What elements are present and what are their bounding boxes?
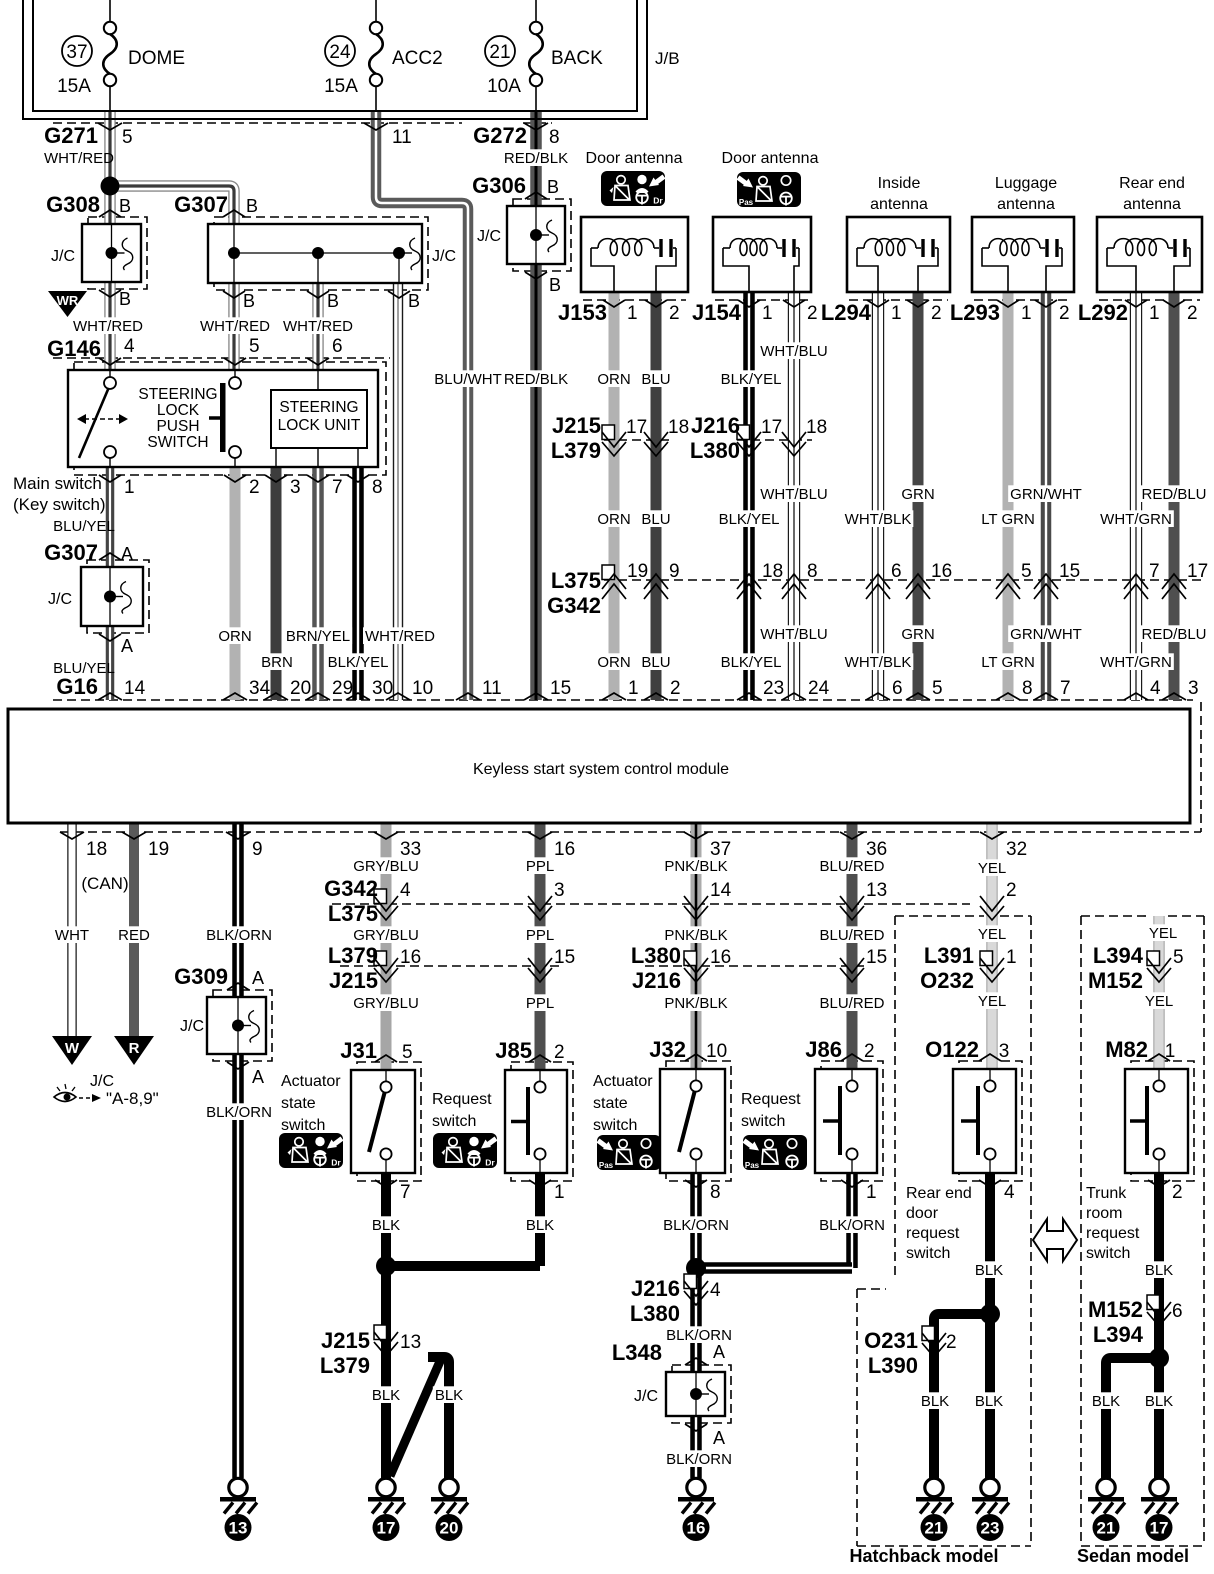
svg-text:18: 18 <box>86 839 107 860</box>
svg-text:29: 29 <box>332 678 353 699</box>
svg-text:antenna: antenna <box>997 196 1055 213</box>
svg-text:11: 11 <box>392 127 412 148</box>
svg-text:BLK: BLK <box>975 1262 1003 1279</box>
svg-text:8: 8 <box>807 561 818 582</box>
svg-text:antenna: antenna <box>1123 196 1181 213</box>
svg-text:A: A <box>121 636 133 656</box>
svg-text:J216: J216 <box>632 968 681 993</box>
svg-text:15: 15 <box>554 947 575 968</box>
svg-text:Luggage: Luggage <box>995 175 1057 192</box>
svg-text:B: B <box>246 196 258 216</box>
svg-text:10: 10 <box>706 1041 727 1062</box>
svg-text:switch: switch <box>741 1113 785 1130</box>
svg-text:Door antenna: Door antenna <box>722 150 819 167</box>
svg-text:GRY/BLU: GRY/BLU <box>353 927 419 944</box>
svg-text:switch: switch <box>1086 1245 1130 1262</box>
svg-text:BLK/ORN: BLK/ORN <box>206 1104 272 1121</box>
svg-text:2: 2 <box>1172 1182 1183 1203</box>
svg-text:2: 2 <box>669 303 680 324</box>
svg-text:BLU/WHT: BLU/WHT <box>434 371 502 388</box>
svg-text:BLK: BLK <box>975 1393 1003 1410</box>
svg-text:L394: L394 <box>1093 1322 1144 1347</box>
svg-text:BLU: BLU <box>641 511 670 528</box>
svg-text:J85: J85 <box>495 1038 532 1063</box>
svg-text:B: B <box>549 275 561 295</box>
svg-text:1: 1 <box>627 303 638 324</box>
svg-text:2: 2 <box>670 678 681 699</box>
svg-text:O122: O122 <box>925 1037 979 1062</box>
svg-text:BLK: BLK <box>526 1217 554 1234</box>
svg-text:2: 2 <box>249 477 260 498</box>
svg-text:M82: M82 <box>1105 1037 1148 1062</box>
svg-text:34: 34 <box>249 678 271 699</box>
svg-text:PNK/BLK: PNK/BLK <box>664 995 727 1012</box>
svg-text:STEERING: STEERING <box>279 399 358 416</box>
svg-text:WHT/BLK: WHT/BLK <box>845 654 912 671</box>
svg-text:7: 7 <box>1149 561 1160 582</box>
svg-text:15: 15 <box>866 947 887 968</box>
svg-text:antenna: antenna <box>870 196 928 213</box>
svg-text:1: 1 <box>124 477 135 498</box>
svg-text:GRY/BLU: GRY/BLU <box>353 858 419 875</box>
svg-text:GRN: GRN <box>901 486 934 503</box>
svg-text:ORN: ORN <box>597 511 630 528</box>
svg-text:L292: L292 <box>1078 300 1128 325</box>
svg-text:2: 2 <box>946 1332 957 1353</box>
svg-text:L379: L379 <box>320 1353 370 1378</box>
svg-text:J86: J86 <box>805 1037 842 1062</box>
svg-text:G307: G307 <box>174 192 228 217</box>
svg-text:1: 1 <box>628 678 639 699</box>
svg-text:ORN: ORN <box>218 628 251 645</box>
svg-text:switch: switch <box>906 1245 950 1262</box>
svg-text:Dr: Dr <box>331 1158 341 1168</box>
svg-text:Hatchback model: Hatchback model <box>849 1546 998 1566</box>
svg-text:GRN: GRN <box>901 626 934 643</box>
svg-text:switch: switch <box>281 1117 325 1134</box>
svg-text:BLK/ORN: BLK/ORN <box>206 927 272 944</box>
svg-text:21: 21 <box>1097 1519 1116 1538</box>
svg-text:WHT/GRN: WHT/GRN <box>1100 511 1172 528</box>
svg-text:WHT/BLU: WHT/BLU <box>760 486 828 503</box>
svg-text:LOCK UNIT: LOCK UNIT <box>278 417 361 434</box>
svg-text:L390: L390 <box>868 1353 918 1378</box>
svg-text:BRN: BRN <box>261 654 293 671</box>
svg-text:L380: L380 <box>631 943 681 968</box>
svg-text:G342: G342 <box>324 876 378 901</box>
svg-text:WHT/RED: WHT/RED <box>73 318 143 335</box>
svg-text:6: 6 <box>892 678 903 699</box>
svg-text:Sedan model: Sedan model <box>1077 1546 1189 1566</box>
svg-text:J31: J31 <box>340 1038 377 1063</box>
svg-text:RED/BLK: RED/BLK <box>504 150 568 167</box>
svg-text:BLK: BLK <box>435 1387 463 1404</box>
svg-text:L348: L348 <box>612 1340 662 1365</box>
svg-text:state: state <box>281 1095 316 1112</box>
svg-text:5: 5 <box>249 336 260 357</box>
svg-text:J215: J215 <box>552 413 601 438</box>
svg-text:G271: G271 <box>44 123 98 148</box>
svg-text:BLK: BLK <box>1145 1393 1173 1410</box>
svg-text:A: A <box>713 1428 725 1448</box>
svg-text:16: 16 <box>400 947 421 968</box>
svg-text:20: 20 <box>440 1519 459 1538</box>
svg-text:"A-8,9": "A-8,9" <box>106 1089 159 1108</box>
svg-text:36: 36 <box>866 839 887 860</box>
svg-text:5: 5 <box>122 127 133 148</box>
svg-text:PPL: PPL <box>526 927 554 944</box>
svg-text:1: 1 <box>1006 947 1017 968</box>
svg-text:door: door <box>906 1205 939 1222</box>
svg-text:G306: G306 <box>472 173 526 198</box>
svg-text:Pas: Pas <box>745 1161 760 1170</box>
svg-text:L391: L391 <box>924 943 974 968</box>
svg-text:PNK/BLK: PNK/BLK <box>664 927 727 944</box>
svg-text:5: 5 <box>1173 947 1184 968</box>
svg-text:B: B <box>243 291 255 311</box>
svg-text:2: 2 <box>1006 880 1017 901</box>
svg-text:30: 30 <box>372 678 393 699</box>
svg-text:J/C: J/C <box>48 591 72 608</box>
svg-text:ORN: ORN <box>597 654 630 671</box>
svg-text:23: 23 <box>981 1519 1000 1538</box>
svg-text:4: 4 <box>124 336 135 357</box>
svg-text:PNK/BLK: PNK/BLK <box>664 858 727 875</box>
svg-text:BRN/YEL: BRN/YEL <box>286 628 350 645</box>
svg-text:G272: G272 <box>473 123 527 148</box>
svg-text:L379: L379 <box>328 943 378 968</box>
svg-text:request: request <box>906 1225 960 1242</box>
svg-text:L293: L293 <box>950 300 1000 325</box>
svg-text:15: 15 <box>550 678 571 699</box>
svg-text:M152: M152 <box>1088 968 1143 993</box>
svg-text:2: 2 <box>554 1042 565 1063</box>
svg-text:23: 23 <box>763 678 784 699</box>
svg-text:(Key switch): (Key switch) <box>13 495 106 514</box>
svg-text:B: B <box>119 196 131 216</box>
svg-text:33: 33 <box>400 839 421 860</box>
svg-text:G309: G309 <box>174 964 228 989</box>
svg-text:J153: J153 <box>558 300 607 325</box>
svg-text:14: 14 <box>710 880 732 901</box>
svg-text:2: 2 <box>864 1041 875 1062</box>
svg-text:10A: 10A <box>487 76 521 97</box>
svg-text:GRY/BLU: GRY/BLU <box>353 995 419 1012</box>
svg-text:2: 2 <box>931 303 942 324</box>
svg-text:BLU: BLU <box>641 654 670 671</box>
svg-text:SWITCH: SWITCH <box>147 434 208 451</box>
svg-text:BLK: BLK <box>921 1393 949 1410</box>
svg-text:BLK: BLK <box>1092 1393 1120 1410</box>
svg-text:B: B <box>547 177 559 197</box>
svg-text:WHT/RED: WHT/RED <box>200 318 270 335</box>
svg-text:B: B <box>327 291 339 311</box>
svg-text:WHT/BLU: WHT/BLU <box>760 626 828 643</box>
svg-text:L375: L375 <box>551 568 601 593</box>
svg-text:37: 37 <box>66 42 87 63</box>
svg-text:L380: L380 <box>690 438 740 463</box>
svg-text:37: 37 <box>710 839 731 860</box>
svg-text:BLK: BLK <box>372 1217 400 1234</box>
svg-text:Inside: Inside <box>878 175 921 192</box>
svg-text:6: 6 <box>1172 1301 1183 1322</box>
svg-text:(CAN): (CAN) <box>81 874 128 893</box>
svg-text:11: 11 <box>482 678 502 699</box>
svg-text:G307: G307 <box>44 540 98 565</box>
svg-text:switch: switch <box>593 1117 637 1134</box>
svg-text:L375: L375 <box>328 901 378 926</box>
svg-text:5: 5 <box>402 1042 413 1063</box>
svg-text:13: 13 <box>400 1332 421 1353</box>
svg-text:L294: L294 <box>821 300 872 325</box>
svg-text:7: 7 <box>1060 678 1071 699</box>
svg-text:6: 6 <box>332 336 343 357</box>
svg-text:J/C: J/C <box>432 248 456 265</box>
svg-text:BLK: BLK <box>1145 1262 1173 1279</box>
svg-text:21: 21 <box>489 42 510 63</box>
svg-text:BLK/YEL: BLK/YEL <box>721 654 782 671</box>
svg-text:WHT/BLU: WHT/BLU <box>760 343 828 360</box>
svg-text:21: 21 <box>925 1519 944 1538</box>
svg-text:8: 8 <box>372 477 383 498</box>
svg-text:A: A <box>121 544 133 564</box>
svg-text:18: 18 <box>762 561 783 582</box>
svg-text:J/C: J/C <box>51 248 75 265</box>
svg-text:WHT/GRN: WHT/GRN <box>1100 654 1172 671</box>
svg-text:PPL: PPL <box>526 858 554 875</box>
svg-text:13: 13 <box>866 880 887 901</box>
svg-text:request: request <box>1086 1225 1140 1242</box>
svg-text:15A: 15A <box>324 76 358 97</box>
svg-text:RED/BLK: RED/BLK <box>504 371 568 388</box>
svg-text:YEL: YEL <box>978 926 1006 943</box>
svg-text:15: 15 <box>1059 561 1080 582</box>
svg-text:RED/BLU: RED/BLU <box>1141 626 1206 643</box>
svg-text:BLK/YEL: BLK/YEL <box>719 511 780 528</box>
svg-text:BLK/ORN: BLK/ORN <box>819 1217 885 1234</box>
svg-text:2: 2 <box>1187 303 1198 324</box>
svg-text:4: 4 <box>1004 1182 1015 1203</box>
svg-text:24: 24 <box>808 678 830 699</box>
svg-text:GRN/WHT: GRN/WHT <box>1010 486 1082 503</box>
svg-text:L379: L379 <box>551 438 601 463</box>
svg-text:16: 16 <box>710 947 731 968</box>
svg-text:YEL: YEL <box>978 860 1006 877</box>
svg-text:O232: O232 <box>920 968 974 993</box>
svg-text:B: B <box>408 291 420 311</box>
svg-text:W: W <box>65 1040 80 1057</box>
svg-text:4: 4 <box>1150 678 1161 699</box>
svg-text:J215: J215 <box>321 1328 370 1353</box>
svg-text:YEL: YEL <box>1149 925 1177 942</box>
svg-text:Actuator: Actuator <box>281 1073 341 1090</box>
svg-text:19: 19 <box>148 839 169 860</box>
svg-text:BLU: BLU <box>641 371 670 388</box>
svg-text:32: 32 <box>1006 839 1027 860</box>
svg-text:WHT/RED: WHT/RED <box>365 628 435 645</box>
svg-text:20: 20 <box>290 678 311 699</box>
svg-text:LT GRN: LT GRN <box>981 511 1035 528</box>
svg-text:WHT: WHT <box>55 927 89 944</box>
svg-text:4: 4 <box>400 880 411 901</box>
svg-text:G146: G146 <box>47 336 101 361</box>
svg-text:1: 1 <box>1021 303 1032 324</box>
svg-text:7: 7 <box>400 1182 411 1203</box>
svg-text:A: A <box>713 1342 725 1362</box>
svg-text:BLK/YEL: BLK/YEL <box>721 371 782 388</box>
svg-text:5: 5 <box>932 678 943 699</box>
svg-text:Request: Request <box>741 1091 801 1108</box>
svg-text:3: 3 <box>1188 678 1199 699</box>
svg-text:M152: M152 <box>1088 1297 1143 1322</box>
svg-text:BLU/YEL: BLU/YEL <box>53 518 115 535</box>
svg-text:WHT/RED: WHT/RED <box>44 150 114 167</box>
svg-text:STEERING: STEERING <box>138 386 217 403</box>
svg-text:3: 3 <box>290 477 301 498</box>
svg-text:4: 4 <box>710 1280 721 1301</box>
svg-text:8: 8 <box>549 127 560 148</box>
svg-text:J/C: J/C <box>634 1388 658 1405</box>
svg-text:Dr: Dr <box>653 196 663 206</box>
svg-text:BLU/RED: BLU/RED <box>819 927 884 944</box>
svg-text:J/C: J/C <box>477 228 501 245</box>
svg-text:19: 19 <box>627 561 648 582</box>
svg-text:Pas: Pas <box>739 198 754 207</box>
svg-text:3: 3 <box>999 1041 1010 1062</box>
svg-text:LOCK: LOCK <box>157 402 200 419</box>
svg-text:7: 7 <box>332 477 343 498</box>
svg-text:J216: J216 <box>691 413 740 438</box>
svg-text:17: 17 <box>626 417 647 438</box>
svg-text:WHT/BLK: WHT/BLK <box>845 511 912 528</box>
svg-text:PPL: PPL <box>526 995 554 1012</box>
svg-text:Request: Request <box>432 1091 492 1108</box>
svg-text:YEL: YEL <box>1145 993 1173 1010</box>
svg-text:10: 10 <box>412 678 433 699</box>
svg-text:17: 17 <box>377 1519 396 1538</box>
svg-text:24: 24 <box>329 42 351 63</box>
svg-text:G342: G342 <box>547 593 601 618</box>
svg-text:switch: switch <box>432 1113 476 1130</box>
svg-text:Dr: Dr <box>485 1158 495 1168</box>
svg-text:R: R <box>129 1040 140 1057</box>
svg-text:Pas: Pas <box>599 1161 614 1170</box>
svg-text:J/C: J/C <box>180 1018 204 1035</box>
svg-text:18: 18 <box>668 417 689 438</box>
svg-text:13: 13 <box>229 1519 248 1538</box>
svg-text:A: A <box>252 968 264 988</box>
svg-text:J32: J32 <box>649 1037 686 1062</box>
svg-text:BLK: BLK <box>372 1387 400 1404</box>
svg-text:J/C: J/C <box>90 1073 114 1090</box>
svg-text:BLK/ORN: BLK/ORN <box>663 1217 729 1234</box>
svg-text:Trunk: Trunk <box>1086 1185 1127 1202</box>
svg-text:18: 18 <box>806 417 827 438</box>
svg-text:15A: 15A <box>57 76 91 97</box>
svg-text:Actuator: Actuator <box>593 1073 653 1090</box>
svg-text:room: room <box>1086 1205 1122 1222</box>
svg-text:Rear end: Rear end <box>906 1185 972 1202</box>
svg-text:ORN: ORN <box>597 371 630 388</box>
svg-text:2: 2 <box>1059 303 1070 324</box>
svg-text:YEL: YEL <box>978 993 1006 1010</box>
svg-text:1: 1 <box>866 1182 877 1203</box>
svg-text:17: 17 <box>761 417 782 438</box>
svg-text:6: 6 <box>891 561 902 582</box>
svg-text:9: 9 <box>252 839 263 860</box>
svg-text:RED/BLU: RED/BLU <box>1141 486 1206 503</box>
svg-text:8: 8 <box>710 1182 721 1203</box>
svg-text:14: 14 <box>124 678 146 699</box>
svg-text:16: 16 <box>687 1519 706 1538</box>
svg-text:8: 8 <box>1022 678 1033 699</box>
svg-text:J154: J154 <box>692 300 742 325</box>
svg-text:BLU/RED: BLU/RED <box>819 995 884 1012</box>
svg-text:G16: G16 <box>56 674 98 699</box>
svg-text:L380: L380 <box>630 1301 680 1326</box>
svg-text:Rear end: Rear end <box>1119 175 1185 192</box>
svg-text:16: 16 <box>931 561 952 582</box>
svg-text:BLK/ORN: BLK/ORN <box>666 1451 732 1468</box>
svg-text:1: 1 <box>762 303 773 324</box>
svg-text:2: 2 <box>807 303 818 324</box>
svg-text:J/B: J/B <box>655 49 680 68</box>
svg-text:Main switch: Main switch <box>13 474 102 493</box>
svg-text:1: 1 <box>891 303 902 324</box>
svg-text:G308: G308 <box>46 192 100 217</box>
svg-text:Door antenna: Door antenna <box>586 150 683 167</box>
svg-text:WHT/RED: WHT/RED <box>283 318 353 335</box>
svg-text:Keyless start system control m: Keyless start system control module <box>473 761 729 778</box>
svg-text:1: 1 <box>1149 303 1160 324</box>
svg-text:L394: L394 <box>1093 943 1144 968</box>
svg-text:3: 3 <box>554 880 565 901</box>
svg-text:ACC2: ACC2 <box>392 48 443 69</box>
svg-text:9: 9 <box>669 561 680 582</box>
svg-text:PUSH: PUSH <box>156 418 199 435</box>
svg-text:WR: WR <box>57 293 79 308</box>
svg-text:5: 5 <box>1021 561 1032 582</box>
svg-text:state: state <box>593 1095 628 1112</box>
svg-text:BLU/RED: BLU/RED <box>819 858 884 875</box>
svg-text:BLK/YEL: BLK/YEL <box>328 654 389 671</box>
svg-text:DOME: DOME <box>128 48 185 69</box>
svg-text:17: 17 <box>1150 1519 1169 1538</box>
svg-text:B: B <box>119 289 131 309</box>
svg-text:1: 1 <box>554 1182 565 1203</box>
svg-text:17: 17 <box>1187 561 1208 582</box>
svg-text:RED: RED <box>118 927 150 944</box>
svg-text:GRN/WHT: GRN/WHT <box>1010 626 1082 643</box>
svg-text:A: A <box>252 1067 264 1087</box>
svg-text:J216: J216 <box>631 1276 680 1301</box>
svg-text:16: 16 <box>554 839 575 860</box>
svg-text:J215: J215 <box>329 968 378 993</box>
svg-text:BACK: BACK <box>551 48 603 69</box>
svg-text:O231: O231 <box>864 1328 918 1353</box>
svg-text:LT GRN: LT GRN <box>981 654 1035 671</box>
